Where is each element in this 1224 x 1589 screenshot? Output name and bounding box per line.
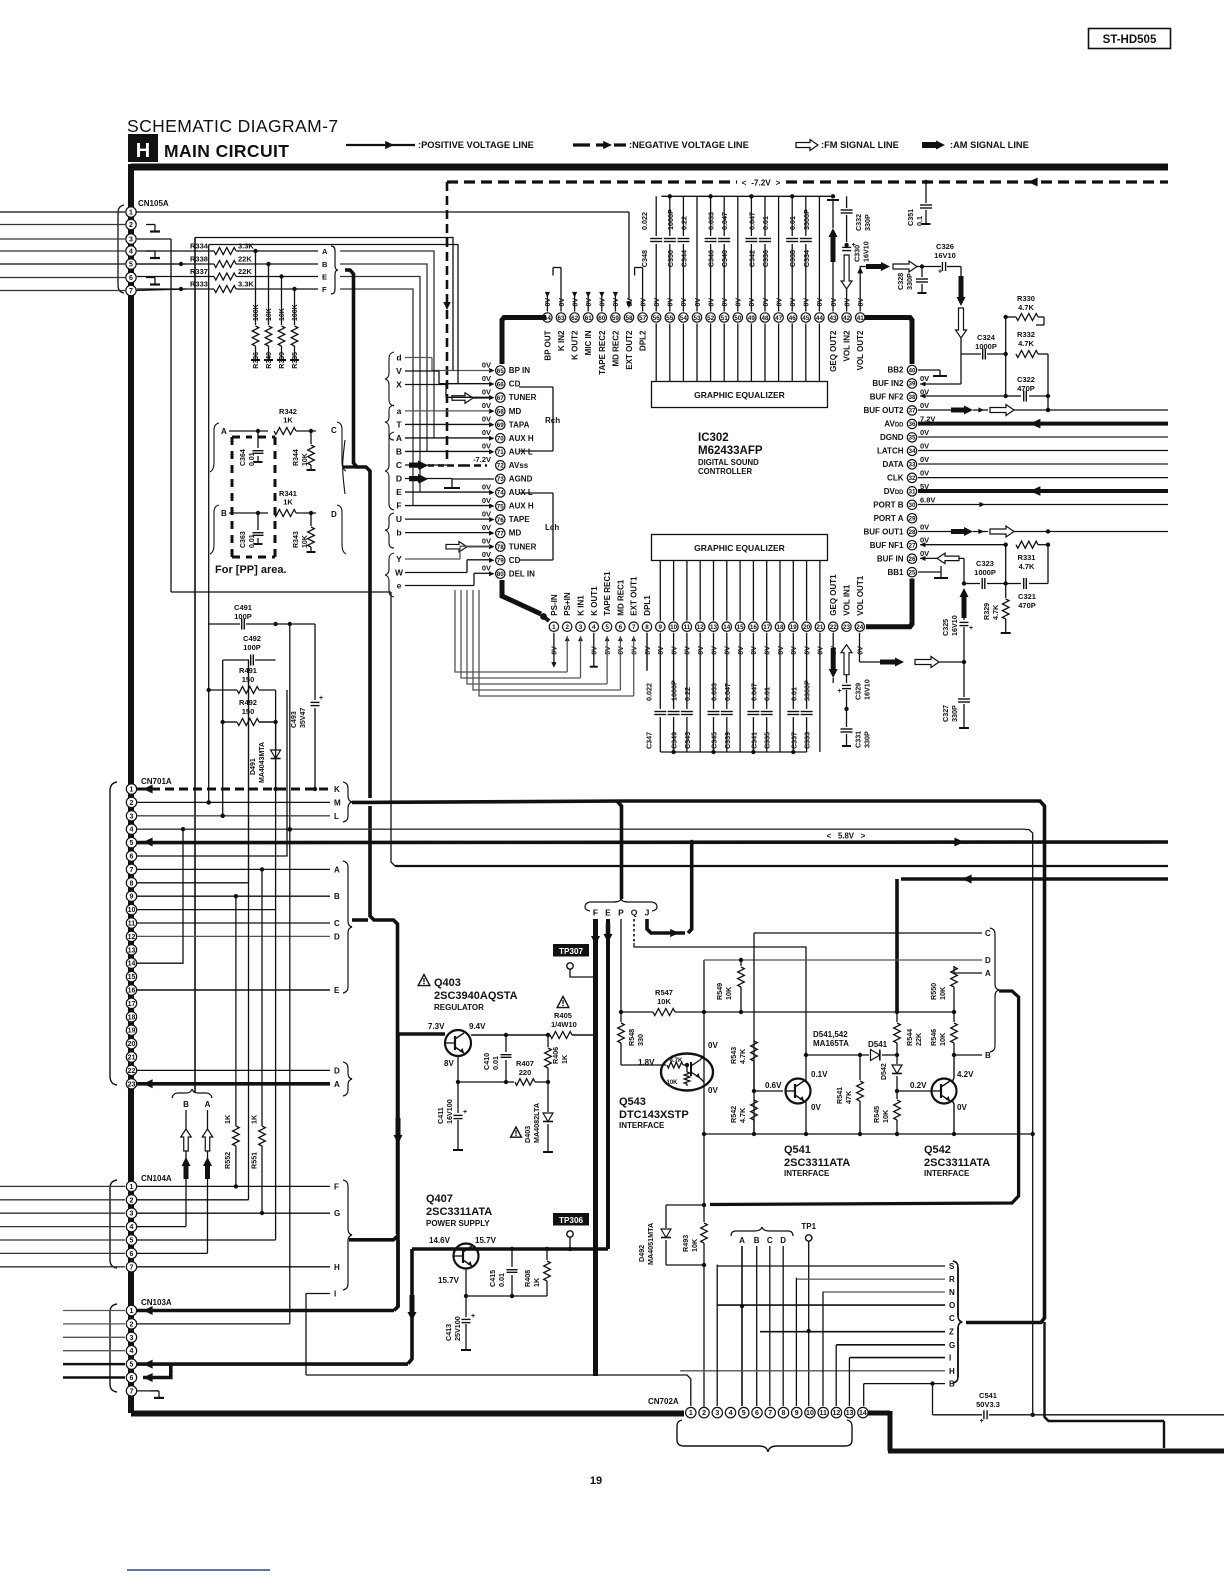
svg-text:A: A xyxy=(205,1100,211,1109)
svg-text:Q: Q xyxy=(631,908,638,918)
thick bus pin24 VOL OUT1 to BB1 xyxy=(866,579,912,627)
brace letters YWe xyxy=(385,553,394,597)
wire C492 left rail down to L line xyxy=(222,660,224,816)
IC302 pin 3 xyxy=(576,622,585,631)
stub above pin 60 xyxy=(601,293,603,312)
wire CN105A pin6 left stub xyxy=(0,277,125,279)
wire CN701A pin9 B xyxy=(137,895,330,897)
svg-text:22: 22 xyxy=(830,624,838,631)
svg-text:100K: 100K xyxy=(253,304,260,321)
svg-text:ST-HD505: ST-HD505 xyxy=(1103,34,1157,46)
svg-text:16V10: 16V10 xyxy=(950,615,959,636)
svg-text:1: 1 xyxy=(130,787,134,794)
thick elbow FGHI brace to rail xyxy=(349,1236,398,1240)
svg-text:CN104A: CN104A xyxy=(141,1174,172,1183)
resistor R333 3.3K xyxy=(137,288,214,290)
svg-text:0V: 0V xyxy=(817,298,824,307)
svg-text:TP307: TP307 xyxy=(559,947,584,956)
svg-text:K IN1: K IN1 xyxy=(577,595,586,616)
svg-text:C410: C410 xyxy=(482,1053,491,1070)
arrow into pin 65 xyxy=(489,368,494,373)
wire CN701A pin10 corner up xyxy=(137,789,276,910)
svg-text:6: 6 xyxy=(129,275,133,282)
svg-text:K OUT2: K OUT2 xyxy=(571,330,580,360)
svg-text:14: 14 xyxy=(859,1410,867,1417)
svg-text:0V: 0V xyxy=(725,646,732,655)
connector CN701A pin 3 xyxy=(126,811,136,821)
IC302 pin 1 xyxy=(549,622,558,631)
IC302 pin 66 xyxy=(496,379,505,388)
svg-text:0V: 0V xyxy=(552,646,559,655)
svg-text:63: 63 xyxy=(557,315,565,322)
node letter C (interface) xyxy=(754,932,982,934)
capacitor C341 0.047 xyxy=(752,633,754,709)
svg-text:220: 220 xyxy=(519,1068,532,1077)
svg-text:0V: 0V xyxy=(482,428,491,437)
svg-text:For [PP] area.: For [PP] area. xyxy=(215,564,287,576)
svg-text:F: F xyxy=(334,1182,339,1191)
svg-text:78: 78 xyxy=(497,544,505,551)
svg-text:A: A xyxy=(322,247,328,256)
H section box xyxy=(128,134,158,162)
svg-text:31: 31 xyxy=(908,489,916,496)
wire CN701A pin11 C xyxy=(137,922,330,924)
connector CN103A pin 5 xyxy=(126,1359,136,1369)
svg-text:4.2V: 4.2V xyxy=(957,1070,974,1079)
svg-text:0V: 0V xyxy=(708,1086,718,1095)
svg-text:0V: 0V xyxy=(668,298,675,307)
svg-text:6.8V: 6.8V xyxy=(920,495,935,504)
wire rail y1012 xyxy=(704,1011,741,1013)
svg-text:8: 8 xyxy=(130,880,134,887)
svg-text:>: > xyxy=(776,179,781,188)
svg-text:5: 5 xyxy=(130,840,134,847)
nc hook above pin 63 xyxy=(560,268,562,312)
svg-text:A: A xyxy=(334,1080,340,1089)
svg-text:0V: 0V xyxy=(763,298,770,307)
svg-text:TAPE REC2: TAPE REC2 xyxy=(598,330,607,375)
IC302 pin 35 xyxy=(907,433,916,442)
svg-text:46: 46 xyxy=(789,315,797,322)
connector CN104A body bracket xyxy=(110,1180,117,1268)
svg-text:H: H xyxy=(949,1367,955,1376)
svg-text:CLK: CLK xyxy=(887,473,904,482)
svg-text:5: 5 xyxy=(130,1362,134,1369)
svg-text:CN702A: CN702A xyxy=(648,1397,679,1406)
svg-text:25V100: 25V100 xyxy=(453,1316,462,1341)
svg-text:C: C xyxy=(985,929,991,938)
wire pin 49 to upper GEQ box xyxy=(750,324,752,382)
svg-text:Rch: Rch xyxy=(545,416,560,425)
node letter B (interface) xyxy=(954,1054,982,1056)
svg-text:41: 41 xyxy=(857,315,865,322)
thick bus CN701A pin23 A xyxy=(137,1082,330,1086)
gray drop wire to pin2 PS+IN xyxy=(455,590,567,672)
wire emitter bus xyxy=(466,1295,547,1297)
svg-text:76: 76 xyxy=(497,517,505,524)
capacitor C343 0.22 xyxy=(686,633,688,709)
svg-text:C: C xyxy=(334,919,340,928)
wire pin 51 to upper GEQ box xyxy=(723,324,725,382)
far-left rail x208 xyxy=(208,245,210,625)
IC302 pin 65 xyxy=(496,366,505,375)
svg-text:0V: 0V xyxy=(613,298,620,307)
thick wire E-line to Q407 xyxy=(412,1247,608,1251)
IC302 pin 71 xyxy=(496,447,505,456)
svg-text:0V: 0V xyxy=(698,646,705,655)
wire CN104A pin4 left stub xyxy=(0,1226,125,1228)
svg-text:C334: C334 xyxy=(802,250,811,267)
IC302 pin 8 xyxy=(642,622,651,631)
svg-text:43: 43 xyxy=(829,315,837,322)
svg-text:B: B xyxy=(754,1236,760,1245)
svg-text:W: W xyxy=(395,567,404,577)
connector CN104A pin 4 xyxy=(126,1221,136,1231)
Q line dotted then right xyxy=(633,919,635,943)
svg-text:65: 65 xyxy=(497,368,505,375)
svg-text:VOL OUT1: VOL OUT1 xyxy=(856,575,865,615)
wire pin 44 column to top bus xyxy=(818,196,820,311)
svg-text:0V: 0V xyxy=(858,298,865,307)
svg-text:4.7K: 4.7K xyxy=(1019,562,1035,571)
svg-text:A: A xyxy=(396,433,402,443)
IC302 pin 77 xyxy=(496,528,505,537)
arrow into pin 80 xyxy=(489,571,494,576)
svg-text:0V: 0V xyxy=(695,298,702,307)
svg-text:MD: MD xyxy=(509,529,522,538)
svg-text:9.4V: 9.4V xyxy=(469,1022,486,1031)
wire CN103A pin1 thick xyxy=(137,1309,394,1313)
capacitor C349 1000P xyxy=(673,633,675,709)
wire pin 53 column to top bus xyxy=(696,196,698,311)
svg-text:C325: C325 xyxy=(941,619,950,636)
IC302 pin 69 xyxy=(496,420,505,429)
brace bottom ladder xyxy=(953,1261,962,1383)
svg-text:Q543: Q543 xyxy=(619,1096,646,1108)
connector CN103A pin 7 xyxy=(126,1386,136,1396)
svg-text:Z: Z xyxy=(949,1328,954,1337)
svg-text:R337: R337 xyxy=(190,267,208,276)
svg-text:1K: 1K xyxy=(532,1277,541,1287)
svg-text:CD: CD xyxy=(509,556,521,565)
svg-text:INTERFACE: INTERFACE xyxy=(784,1169,830,1178)
arrow into pin 68 xyxy=(489,409,494,414)
svg-text:9: 9 xyxy=(130,894,134,901)
wire pin 11 to lower GEQ box xyxy=(686,561,688,621)
svg-text:P: P xyxy=(618,908,624,918)
IC302 pin 14 xyxy=(722,622,731,631)
svg-text:0V: 0V xyxy=(831,298,838,307)
connector CN701A pin 19 xyxy=(126,1025,136,1035)
wire Q543 collector up xyxy=(700,1056,704,1060)
svg-text:32: 32 xyxy=(908,475,916,482)
thick AM bus DEL IN column to pin1 PS-IN xyxy=(502,580,541,614)
svg-text:R339: R339 xyxy=(279,352,286,369)
wire letter a to pin xyxy=(405,410,490,412)
svg-text:0V: 0V xyxy=(559,298,566,307)
IC302 pin 31 xyxy=(907,487,916,496)
wire CN105A pin4 left stub xyxy=(0,250,125,252)
brace CDAB interface xyxy=(990,928,999,1052)
svg-text:2SC3311ATA: 2SC3311ATA xyxy=(924,1157,990,1169)
svg-text:3.3K: 3.3K xyxy=(238,242,254,251)
IC302 pin 45 xyxy=(801,313,810,322)
svg-text:19: 19 xyxy=(128,1028,136,1035)
svg-text:D491: D491 xyxy=(250,758,257,775)
dot A column on O row xyxy=(740,1304,744,1308)
svg-text:L: L xyxy=(334,812,339,821)
svg-text:0V: 0V xyxy=(804,646,811,655)
svg-text:0V: 0V xyxy=(844,298,851,307)
wire CN104A pin5 left stub xyxy=(0,1239,125,1241)
wire rail x275 down to K line xyxy=(275,690,277,789)
svg-text:70: 70 xyxy=(497,436,505,443)
svg-text:R330: R330 xyxy=(1017,294,1035,303)
svg-text:C324: C324 xyxy=(977,333,996,342)
svg-text:34: 34 xyxy=(908,448,916,455)
thick rail x412 down to CN103A pin5 xyxy=(408,1249,412,1364)
thick E line down xyxy=(606,919,610,1249)
IC302 pin 29 xyxy=(907,514,916,523)
svg-text:MAIN CIRCUIT: MAIN CIRCUIT xyxy=(164,141,289,161)
rail R330-R332-C322 xyxy=(1005,317,1007,396)
connector CN702A pin 11 xyxy=(818,1407,828,1417)
connector CN105A pin 7 xyxy=(126,285,136,295)
wire CN701A pin4 xyxy=(137,828,1025,830)
svg-text:VOL IN2: VOL IN2 xyxy=(843,330,852,362)
svg-text:MIC IN: MIC IN xyxy=(584,330,593,355)
svg-text:-7.2V: -7.2V xyxy=(473,455,491,464)
connector CN702A body brace xyxy=(677,1420,852,1452)
svg-text:3.3K: 3.3K xyxy=(238,280,254,289)
wire C down to bottom bus xyxy=(753,933,755,1134)
wire pin 9 to lower GEQ box xyxy=(659,561,661,621)
wire pin5 to R338 row xyxy=(136,263,186,265)
ground hook after CN105A pin2 xyxy=(146,224,155,226)
IC302 pin 10 xyxy=(669,622,678,631)
svg-text:d: d xyxy=(396,352,401,362)
stub above pin 62 xyxy=(574,293,576,312)
brace bottom ladder xyxy=(953,1261,962,1383)
AM arrow down column pin22 GEQ OUT1 xyxy=(832,633,834,650)
IC302 pin 28 xyxy=(907,527,916,536)
svg-text:80: 80 xyxy=(497,571,505,578)
svg-text:12: 12 xyxy=(128,934,136,941)
connector CN701A pin 4 xyxy=(126,824,136,834)
svg-text:TAPA: TAPA xyxy=(509,420,530,429)
svg-text:R408: R408 xyxy=(523,1270,532,1287)
svg-text:0V: 0V xyxy=(858,646,865,655)
connector CN701A pin 17 xyxy=(126,998,136,1008)
svg-text:14: 14 xyxy=(723,624,731,631)
wire CN105A pin3 left stub xyxy=(0,238,125,240)
svg-text:X: X xyxy=(396,379,402,389)
IC302 pin 39 xyxy=(907,379,916,388)
resistor R339 10K (pull-down) xyxy=(279,274,283,278)
rail x1044 down from C bundle junction xyxy=(1045,1322,1165,1421)
connector CN702A pin 3 xyxy=(712,1407,722,1417)
thin rail from y826 corner down to C541 line xyxy=(1025,830,1033,1415)
wire pin 14 to lower GEQ box xyxy=(726,561,728,621)
thick drop from M bus to FEPQJ bracket xyxy=(617,801,622,899)
svg-text:C411: C411 xyxy=(436,1107,445,1124)
svg-text:TP1: TP1 xyxy=(801,1222,816,1231)
svg-text:EXT OUT2: EXT OUT2 xyxy=(625,330,634,370)
svg-text:B: B xyxy=(949,1380,955,1389)
thick bundle CDAB to D492 line xyxy=(710,991,1019,1205)
capacitor C335 0.01 xyxy=(766,633,768,709)
svg-text:B: B xyxy=(322,260,328,269)
svg-text::FM SIGNAL LINE: :FM SIGNAL LINE xyxy=(821,140,899,150)
svg-text:I: I xyxy=(949,1354,951,1363)
svg-text:0.01: 0.01 xyxy=(788,216,797,230)
wire pin 44 to upper GEQ box xyxy=(818,324,820,382)
svg-text:PS+IN: PS+IN xyxy=(563,592,572,616)
svg-text:0V: 0V xyxy=(920,441,929,450)
svg-text:48: 48 xyxy=(761,315,769,322)
connector CN105A pin 1 xyxy=(126,207,136,217)
wire pin28 BUF OUT1 with arrows xyxy=(918,531,951,533)
svg-text:1000P: 1000P xyxy=(666,209,675,230)
connector CN103A body bracket xyxy=(110,1304,117,1392)
brace bottom ladder xyxy=(953,1261,962,1383)
svg-text:20: 20 xyxy=(803,624,811,631)
arrow into pin 66 xyxy=(489,382,494,387)
svg-text:0V: 0V xyxy=(920,401,929,410)
svg-text:38: 38 xyxy=(908,394,916,401)
wire F row to pin75 row xyxy=(340,289,413,506)
svg-text:K: K xyxy=(334,785,340,794)
svg-text:D: D xyxy=(780,1236,786,1245)
svg-text:INTERFACE: INTERFACE xyxy=(619,1121,665,1130)
svg-text:2: 2 xyxy=(129,222,133,229)
svg-text:VOL OUT2: VOL OUT2 xyxy=(856,330,865,370)
svg-text:0V: 0V xyxy=(920,374,929,383)
svg-text:AUX L: AUX L xyxy=(509,447,533,456)
Lch bracket xyxy=(519,492,553,494)
wire pin 48 to upper GEQ box xyxy=(764,324,766,382)
transistor Q541 xyxy=(786,1079,811,1104)
svg-text:49: 49 xyxy=(748,315,756,322)
wire letter Y to pin xyxy=(405,558,460,560)
svg-text:C328: C328 xyxy=(896,273,905,290)
svg-text:R335: R335 xyxy=(292,352,299,369)
resistor R334 3.3K xyxy=(137,250,214,252)
wire CN104A pin2 corner xyxy=(137,1199,249,1201)
IC302 pin 9 xyxy=(656,622,665,631)
wire pin27 BUF NF1 xyxy=(920,542,925,547)
svg-text:4: 4 xyxy=(130,827,134,834)
svg-text:MD REC1: MD REC1 xyxy=(616,579,625,616)
wire Q541 emitter down xyxy=(805,1100,807,1134)
svg-text:20: 20 xyxy=(128,1041,136,1048)
svg-text:4.7K: 4.7K xyxy=(670,1058,683,1064)
svg-text:+: + xyxy=(938,269,942,276)
IC302 pin 73 xyxy=(496,474,505,483)
svg-text:S: S xyxy=(949,1262,955,1271)
svg-text:0V: 0V xyxy=(920,455,929,464)
svg-text:0V: 0V xyxy=(920,428,929,437)
svg-text:0V: 0V xyxy=(482,536,491,545)
svg-text:6: 6 xyxy=(130,1375,134,1382)
svg-text:0V: 0V xyxy=(654,298,661,307)
svg-text:13: 13 xyxy=(846,1410,854,1417)
stub above pin 59 xyxy=(614,293,616,312)
svg-text:D: D xyxy=(985,956,991,965)
svg-text:CN105A: CN105A xyxy=(138,199,169,208)
IC302 pin 36 xyxy=(907,419,916,428)
svg-text:TAPE REC1: TAPE REC1 xyxy=(603,571,612,616)
svg-text:0.01: 0.01 xyxy=(497,1273,506,1287)
wire CN104A pin3 left stub xyxy=(0,1212,125,1214)
IC302 pin 43 xyxy=(828,313,837,322)
arrow into pin 77 xyxy=(489,531,494,536)
drop R row to pin9 xyxy=(795,1278,797,1406)
wire from pin1-line y1375 left xyxy=(306,1374,390,1376)
svg-text:1K: 1K xyxy=(560,1054,569,1064)
top capacitor bank bus xyxy=(661,195,832,197)
svg-text:3300P: 3300P xyxy=(803,680,812,701)
wire pin22 to C329 xyxy=(833,682,846,684)
svg-text:Lch: Lch xyxy=(545,523,559,532)
wire CN104A pin6 to A xyxy=(137,1252,208,1254)
ground hook pin40 BB2 xyxy=(918,369,940,371)
svg-text:TP306: TP306 xyxy=(559,1216,584,1225)
wire CN103A left stubs upper xyxy=(63,1310,125,1312)
svg-text:R542: R542 xyxy=(729,1106,738,1123)
svg-text:0V: 0V xyxy=(736,298,743,307)
wire pin 53 to upper GEQ box xyxy=(696,324,698,382)
connector CN701A pin 12 xyxy=(126,931,136,941)
svg-text:30: 30 xyxy=(908,502,916,509)
feeder wire y237 from rail x195 xyxy=(195,238,453,371)
svg-text:2SC3311ATA: 2SC3311ATA xyxy=(426,1206,492,1218)
connector CN701A pin 11 xyxy=(126,918,136,928)
wire CD bundle to thick rail xyxy=(343,465,357,468)
wire Q403 collector to R405 xyxy=(471,1034,506,1036)
IC302 pin 26 xyxy=(907,554,916,563)
brace KML xyxy=(343,782,352,822)
svg-text:GRAPHIC EQUALIZER: GRAPHIC EQUALIZER xyxy=(694,543,785,553)
brace A-E group xyxy=(343,861,352,993)
rail x289 pin4 to CN103A pin2 xyxy=(289,829,291,1324)
svg-text:330P: 330P xyxy=(950,705,959,722)
svg-text:0V: 0V xyxy=(482,360,491,369)
thick wire into Q403 xyxy=(398,1032,445,1036)
IC302 pin 16 xyxy=(749,622,758,631)
svg-text:DGND: DGND xyxy=(880,433,904,442)
svg-text:79: 79 xyxy=(497,557,505,564)
IC302 pin 75 xyxy=(496,501,505,510)
svg-text:19: 19 xyxy=(790,624,798,631)
svg-text:MA4043MTA: MA4043MTA xyxy=(259,742,266,783)
svg-text:C337: C337 xyxy=(789,732,798,749)
svg-text:Y: Y xyxy=(396,554,402,564)
node letter D (interface) xyxy=(704,959,982,961)
nc hook above pin 57 xyxy=(642,268,644,312)
svg-text:10K: 10K xyxy=(266,308,273,321)
Rch bracket xyxy=(519,386,553,388)
bracket ABCD xyxy=(731,1227,793,1236)
svg-text:C336: C336 xyxy=(761,250,770,267)
svg-text:C493: C493 xyxy=(291,711,298,728)
svg-text:E: E xyxy=(334,986,340,995)
svg-text:1K: 1K xyxy=(223,1114,232,1124)
svg-text:0V: 0V xyxy=(749,298,756,307)
svg-text:O: O xyxy=(949,1301,955,1310)
svg-text:F: F xyxy=(322,285,327,294)
svg-text:+: + xyxy=(319,695,323,702)
